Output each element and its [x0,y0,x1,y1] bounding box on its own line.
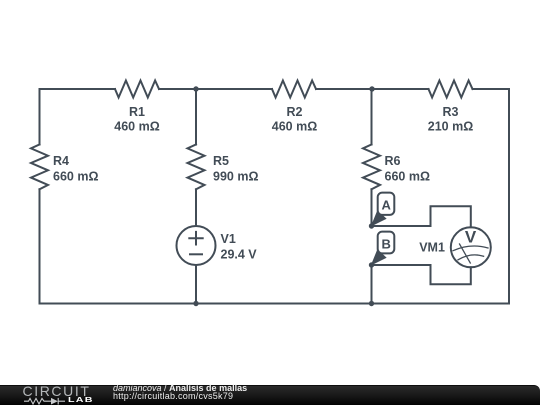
wire voltmeter bottom to node B [372,265,471,284]
wire top rail middle-left segment [159,88,272,90]
resistor R3 [428,81,473,134]
svg-text:V1: V1 [221,232,236,246]
resistor R6 [363,145,430,190]
voltmeter VM1 [419,227,491,267]
svg-text:460 mΩ: 460 mΩ [114,120,159,134]
node B flag [372,232,395,265]
wire left rail upper [39,89,41,145]
wire R5 branch upper [195,89,197,145]
svg-text:R2: R2 [287,105,303,119]
svg-text:R4: R4 [53,154,69,168]
wire left rail lower [39,189,41,303]
svg-text:R3: R3 [443,105,459,119]
logo LAB text [68,396,94,404]
svg-text:R1: R1 [129,105,145,119]
footer bar [0,385,540,405]
resistor R5 [188,145,259,190]
wire node A to voltmeter top [372,206,471,227]
junction node dots [193,86,374,306]
wire top rail left segment [40,88,116,90]
svg-text:B: B [382,236,391,251]
wire right rail [508,89,510,304]
svg-text:V: V [465,227,477,246]
resistor R2 [272,81,317,134]
wire bottom rail [40,303,510,305]
resistor R4 [31,145,98,190]
voltage source V1 [177,226,258,265]
svg-text:29.4 V: 29.4 V [221,248,258,262]
svg-text:A: A [382,198,392,213]
svg-text:660 mΩ: 660 mΩ [385,170,430,184]
resistor R1 [114,81,159,134]
footer url line [113,393,233,400]
wire R5 to V1 [195,189,197,226]
svg-text:460 mΩ: 460 mΩ [272,120,317,134]
wire R6 to node A [371,189,373,226]
wire V1 to bottom rail [195,265,197,304]
svg-text:VM1: VM1 [419,240,445,254]
node A flag [372,193,395,226]
svg-text:R6: R6 [385,154,401,168]
wire R6 branch upper [371,89,373,145]
CircuitLab logo text [23,384,91,398]
wire node B to bottom rail [371,265,373,304]
svg-text:990 mΩ: 990 mΩ [213,170,258,184]
footer title line [113,385,247,392]
svg-text:210 mΩ: 210 mΩ [428,120,473,134]
svg-text:660 mΩ: 660 mΩ [53,170,98,184]
wire top rail middle-right segment [316,88,429,90]
CircuitLab logo squiggle (resistor + diode) [24,397,66,406]
wire top rail right segment [473,88,510,90]
svg-text:R5: R5 [213,154,229,168]
